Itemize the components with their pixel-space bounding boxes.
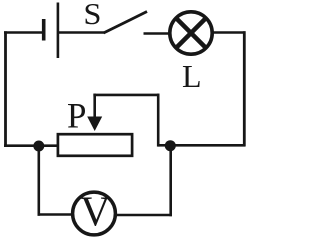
lamp L: X diagonal 2 <box>176 18 206 48</box>
battery B1: long thin plate (positive) <box>57 3 60 59</box>
svg-text:S: S <box>83 0 101 31</box>
label S <box>83 0 101 31</box>
svg-text:L: L <box>182 58 202 94</box>
wire: lamp to right rail <box>212 31 246 34</box>
wire: battery to switch pivot <box>59 31 104 34</box>
wire: wiper branch to junction B <box>158 144 170 147</box>
rheostat P: wiper arrow shaft <box>93 94 96 119</box>
wire: switch to lamp <box>144 32 170 35</box>
svg-text:V: V <box>80 189 110 235</box>
lamp L: X diagonal 1 <box>176 18 206 48</box>
rheostat P: wiper arrowhead <box>87 117 102 132</box>
wire: voltmeter left horizontal <box>38 213 73 216</box>
wire: voltmeter right vertical <box>169 146 172 217</box>
switch S: blade (open) <box>104 12 148 34</box>
wire: voltmeter right horizontal <box>116 214 172 217</box>
voltmeter V: circle <box>73 192 116 235</box>
junction node A (left dot) <box>33 141 44 152</box>
wire: left vertical rail <box>4 31 7 147</box>
label P <box>67 95 86 136</box>
lamp L: circle <box>170 12 212 54</box>
wire: middle rail left segment (left rail to rheostat) <box>4 144 58 147</box>
wire: middle rail right segment (right rail to junction B) <box>170 144 246 147</box>
wire: top-left horizontal from left rail to battery <box>4 31 42 34</box>
wire: right vertical rail <box>243 31 246 146</box>
wire: wiper top horizontal <box>93 94 159 97</box>
battery B1: short thick plate (negative) <box>42 19 46 41</box>
wire: wiper branch vertical down <box>157 94 160 147</box>
rheostat P: resistor body rectangle <box>58 134 132 156</box>
wire: voltmeter left vertical <box>37 146 40 216</box>
svg-text:P: P <box>67 95 86 136</box>
junction node B (right dot) <box>165 140 176 151</box>
